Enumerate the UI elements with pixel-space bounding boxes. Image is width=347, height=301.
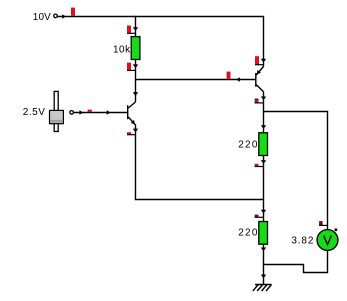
svg-text:220: 220: [238, 228, 259, 239]
current arrow on base wire 2: [107, 110, 111, 114]
wire PNP collector down: [263, 92, 265, 133]
transistor Q2 PNP: [255, 73, 257, 87]
wire right rail down to voltmeter: [327, 111, 329, 230]
current arrow below R3: [261, 248, 266, 252]
current arrow below R2: [261, 160, 266, 164]
wire collector node to right rail: [264, 111, 328, 113]
voltage bar on emitter wire: [127, 132, 131, 134]
terminal circle of 2.5V source: [70, 111, 74, 115]
voltage bar on PNP base wire: [227, 72, 231, 79]
voltage bar on base wire: [88, 110, 92, 112]
voltage bar below R2: [255, 164, 259, 166]
voltage bar below 10k: [127, 63, 131, 70]
wire right vertical down to PNP emitter: [263, 16, 265, 67]
voltage bar above R3: [255, 215, 259, 217]
current arrow on base wire 1: [79, 110, 83, 114]
resistor R1 10k: [131, 37, 140, 60]
wire R3 to ground node: [263, 244, 265, 284]
current arrow into PNP emitter: [261, 59, 266, 63]
wire top rail from 10V source to top-right corner: [58, 16, 263, 18]
current arrow into 10k: [133, 27, 138, 31]
svg-text:3.82: 3.82: [291, 236, 314, 247]
wire emitter to mid rail: [135, 199, 264, 201]
wire left branch down from top rail to 10k: [135, 16, 137, 37]
voltage bar at PNP emitter: [255, 56, 259, 64]
terminal circle of 10V source: [54, 14, 58, 18]
current arrow above NPN collector: [133, 92, 138, 96]
wire 2.5V to NPN base: [74, 112, 128, 114]
current arrow above R3: [261, 210, 266, 214]
current arrow on emitter wire: [133, 129, 138, 133]
svg-text:10k: 10k: [113, 44, 131, 55]
slider track of 2.5V source: [54, 91, 58, 131]
ground: [255, 284, 272, 286]
wire from 10k down to NPN collector: [135, 60, 137, 103]
svg-text:10V: 10V: [33, 12, 51, 23]
resistor R2 220: [259, 133, 268, 156]
voltage bar (10V node) on top wire: [71, 8, 75, 16]
wire node to PNP base: [136, 79, 256, 81]
current arrow above R2: [261, 125, 266, 129]
current arrow above ground: [261, 275, 266, 279]
wire R2 to R3: [263, 156, 265, 222]
svg-text:2.5V: 2.5V: [23, 107, 46, 118]
voltmeter M1: [317, 230, 338, 251]
transistor Q1 NPN: [127, 105, 129, 119]
voltage bar at PNP collector: [255, 99, 259, 101]
current arrow out of PNP base (pointing left): [236, 77, 240, 81]
voltage bar at voltmeter top: [319, 221, 323, 225]
current arrow below 10k: [133, 64, 138, 68]
current arrow at PNP collector: [261, 97, 266, 101]
svg-text:220: 220: [238, 139, 259, 150]
current arrow on 10V wire: [62, 14, 66, 18]
slider knob of 2.5V source: [50, 110, 64, 123]
voltmeter terminal dot: [335, 229, 338, 232]
wire ground node to voltmeter bottom: [263, 251, 328, 273]
resistor R3 220: [259, 222, 268, 245]
voltage bar (10V node) on left branch: [127, 26, 131, 33]
wire NPN emitter down: [135, 125, 137, 199]
